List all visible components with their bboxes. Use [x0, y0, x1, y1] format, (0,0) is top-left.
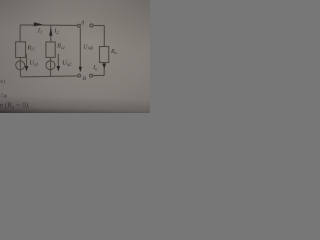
arrow UAB shaft	[79, 28, 81, 67]
svg-text:∞): ∞)	[0, 78, 5, 85]
node B terminal (rail side)	[78, 74, 81, 77]
svg-text:Uq2: Uq2	[62, 59, 72, 66]
wire top rail left (to node A)	[20, 24, 77, 27]
svg-text:Uq1: Uq1	[29, 59, 38, 66]
resistor Ra	[100, 47, 109, 63]
arrowhead I2	[49, 28, 52, 36]
wire middle branch upper	[50, 25, 52, 42]
wire top rail right (A to load corner)	[93, 25, 104, 27]
node A terminal (rail side)	[78, 24, 81, 27]
svg-text:UAB: UAB	[83, 44, 93, 50]
arrowhead Uq2	[57, 66, 61, 72]
svg-text:Ri2: Ri2	[56, 43, 65, 50]
arrowhead Ia	[102, 64, 106, 69]
svg-text:Ia: Ia	[92, 65, 97, 71]
resistor Ri1	[16, 42, 26, 58]
source Uq2	[46, 61, 55, 70]
svg-text:I1: I1	[37, 27, 42, 34]
svg-text:B: B	[83, 76, 87, 82]
svg-text:en (Ra = 0).: en (Ra = 0).	[0, 102, 30, 111]
arrowhead Uq1	[25, 66, 29, 72]
wire left branch lower (through source Uq1)	[19, 58, 21, 77]
svg-text:Ra: Ra	[110, 49, 117, 55]
wire load branch bottom (B to corner)	[93, 74, 105, 76]
wire load branch vertical lower	[103, 63, 105, 76]
svg-text:A: A	[80, 20, 85, 26]
svg-text:I2: I2	[53, 28, 59, 35]
resistor Ri2	[46, 42, 55, 57]
wire left branch upper	[19, 25, 21, 42]
svg-text:Ri1: Ri1	[26, 44, 35, 51]
wire load branch vertical upper	[103, 26, 105, 47]
arrowhead UAB	[79, 67, 82, 73]
node A terminal (load side)	[90, 24, 93, 27]
source Uq1	[16, 61, 25, 70]
arrowhead I1	[34, 22, 43, 26]
arrow Uq1 shaft	[26, 54, 28, 67]
svg-text:UAB: UAB	[0, 93, 8, 99]
node B terminal (load side)	[90, 74, 93, 77]
wire bottom rail (left corner to node B)	[21, 76, 78, 77]
wire middle branch lower (through source Uq2)	[50, 57, 52, 76]
arrow Uq2 shaft	[57, 54, 59, 67]
